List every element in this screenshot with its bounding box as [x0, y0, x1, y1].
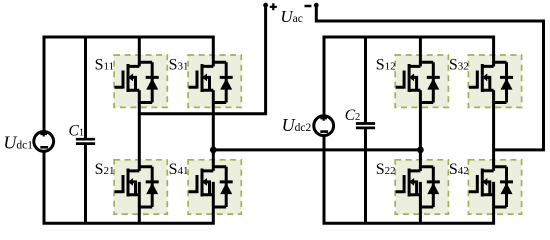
capacitor C2 plates [356, 124, 375, 128]
label - polarity [305, 5, 312, 8]
transistor S32 (MOSFET) [469, 62, 507, 92]
wire: bottom rail + left rail lower + right-leg source [324, 137, 494, 224]
switch cell S11 dashed box [114, 55, 167, 107]
DC source Udc2 [314, 116, 334, 136]
body diode of S21 [139, 167, 158, 207]
body diode of S31 [213, 62, 232, 102]
wire: + output from left bridge midpoint up to + terminal [139, 5, 265, 114]
transistor S22 (MOSFET) [396, 167, 434, 197]
body diode of S32 [494, 62, 513, 102]
wire: bottom rail + left rail lower + right-leg source [44, 152, 213, 223]
transistor S21 (MOSFET) [115, 167, 153, 197]
label + polarity [270, 3, 277, 10]
wire: left leg middle [138, 90, 141, 171]
body diode of S42 [494, 167, 513, 207]
node: + terminal dot [263, 3, 268, 8]
wire: left leg bottom [138, 182, 141, 223]
body diode of S41 [213, 167, 232, 207]
node: - terminal dot [314, 3, 319, 8]
switch cell S31 dashed box [188, 55, 241, 107]
switch cell S21 dashed box [114, 160, 167, 214]
body diode of S11 [139, 62, 158, 102]
wire: left leg middle [419, 90, 422, 171]
wire: top rail + left rail upper + right-leg drain (bridge x+280) [324, 37, 494, 115]
wire: top rail + left rail upper + right-leg drain (bridge x+0) [44, 37, 213, 131]
wire: capacitor branch [364, 37, 367, 223]
switch cell S22 dashed box [395, 160, 448, 214]
node: left bridge leg-B junction [210, 147, 217, 154]
wire: left leg drain [138, 37, 141, 66]
switch cell S41 dashed box [188, 160, 241, 214]
switch cell S42 dashed box [468, 160, 521, 214]
wire: series link, left bridge leg-B to right bridge leg-A [213, 148, 420, 151]
transistor S41 (MOSFET) [189, 167, 227, 197]
node: right bridge leg-A junction [417, 147, 424, 154]
wire: capacitor branch [84, 37, 87, 223]
switch cell S12 dashed box [395, 55, 448, 107]
transistor S11 (MOSFET) [115, 62, 153, 92]
capacitor C1 plates [76, 139, 95, 143]
wire: right leg middle [212, 90, 215, 171]
wire: left leg drain [419, 37, 422, 66]
body diode of S12 [420, 62, 439, 102]
transistor S31 (MOSFET) [189, 62, 227, 92]
transistor S42 (MOSFET) [469, 167, 507, 197]
switch cell S32 dashed box [468, 55, 521, 107]
wire: left leg bottom [419, 182, 422, 223]
DC source Udc1 [34, 132, 54, 152]
wire: - terminal down, across top right, down right edge to right-bridge leg-B midpoint [316, 5, 543, 150]
wire: right leg middle [492, 90, 495, 171]
transistor S12 (MOSFET) [396, 62, 434, 92]
body diode of S22 [420, 167, 439, 207]
